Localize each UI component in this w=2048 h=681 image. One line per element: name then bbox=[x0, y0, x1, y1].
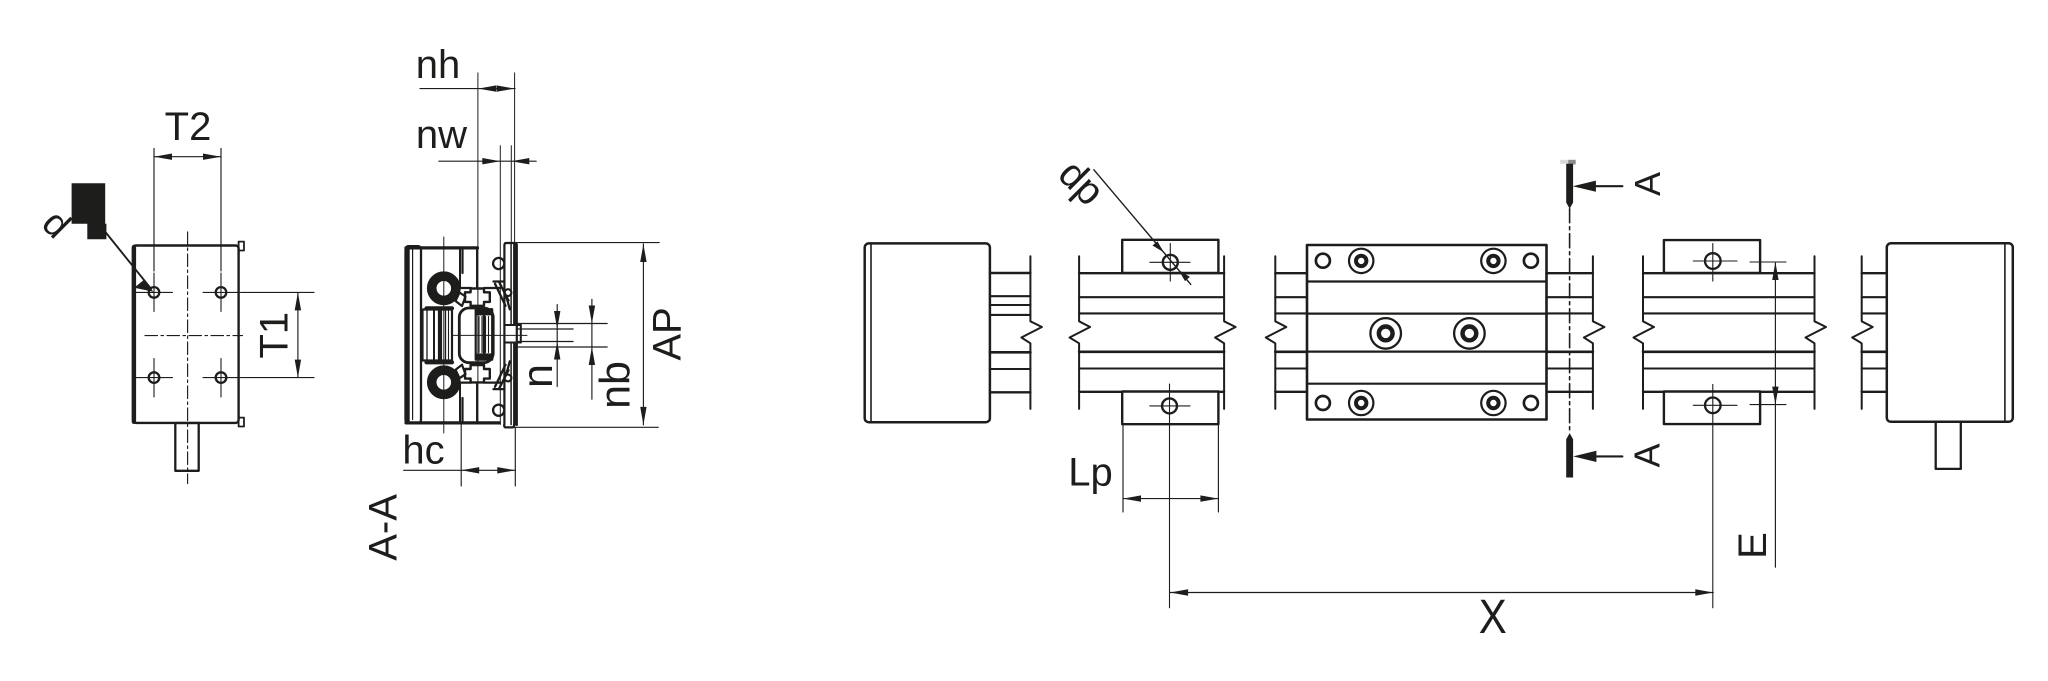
lip top bbox=[494, 282, 512, 310]
svg-text:hc: hc bbox=[402, 428, 444, 472]
carriage corner hole TL bbox=[1316, 254, 1330, 268]
rail span 2 bbox=[1079, 273, 1224, 392]
end block body bbox=[133, 246, 239, 423]
leader d bbox=[105, 232, 151, 289]
T-slot top bbox=[465, 289, 490, 306]
hole bottom-left bbox=[149, 372, 160, 383]
svg-text:AP: AP bbox=[646, 307, 690, 360]
svg-text:X: X bbox=[1479, 591, 1507, 644]
carriage bolt top L bbox=[1349, 249, 1373, 273]
belt end caps bbox=[476, 310, 492, 316]
carriage body top edge bbox=[406, 246, 478, 249]
dimension T2 bbox=[154, 149, 221, 272]
left clamp block bbox=[423, 310, 440, 361]
rail stub left of carriage bbox=[1275, 273, 1307, 392]
dimension T1 bbox=[241, 292, 315, 377]
dimension X bbox=[1170, 592, 1713, 594]
carriage corner hole BR bbox=[1524, 396, 1538, 410]
carriage bolt bottom L bbox=[1349, 391, 1373, 415]
bracket bottom plate bbox=[1122, 392, 1218, 425]
rail plate screw top bbox=[493, 258, 504, 269]
diamond top bbox=[456, 293, 466, 307]
belt exit tab bbox=[505, 325, 521, 343]
break line 1 bbox=[1021, 256, 1042, 409]
hole top-right bbox=[216, 287, 227, 298]
dimension AP bbox=[505, 243, 659, 428]
section thin verticals bbox=[444, 73, 527, 433]
break line 2 bbox=[1070, 256, 1091, 409]
svg-text:nb: nb bbox=[592, 361, 640, 409]
break line 6 bbox=[1634, 256, 1655, 409]
dimension Lp bbox=[1123, 426, 1218, 513]
right shaft stub bbox=[1936, 422, 1961, 469]
svg-text:T2: T2 bbox=[165, 105, 212, 149]
cut arrow bottom bbox=[1595, 455, 1622, 457]
section cut line A-A bbox=[1560, 160, 1576, 478]
motor block left bbox=[865, 243, 990, 422]
svg-text:T1: T1 bbox=[253, 312, 297, 359]
hole bottom-right bbox=[216, 372, 227, 383]
black blob artifact bbox=[72, 183, 107, 239]
bottom-right tab bbox=[239, 418, 244, 427]
rail stub right of carriage bbox=[1547, 273, 1593, 392]
clamp bar under top roller bbox=[427, 306, 453, 310]
dimension nb bbox=[591, 299, 593, 399]
central cavity bbox=[459, 308, 493, 363]
slot opening verticals bbox=[459, 248, 461, 288]
belt strip left bbox=[476, 309, 484, 359]
break line 3 bbox=[1215, 256, 1236, 409]
carriage corner hole TR bbox=[1524, 254, 1538, 268]
svg-text:n: n bbox=[514, 364, 562, 388]
svg-text:A: A bbox=[1627, 443, 1668, 467]
hole crosshairs bbox=[136, 273, 240, 397]
body right edges bbox=[461, 248, 463, 273]
bracket2 bottom plate bbox=[1664, 392, 1760, 425]
T-slot bottom bbox=[465, 365, 490, 382]
carriage bbox=[1307, 245, 1547, 420]
belt strip right bbox=[484, 309, 492, 359]
break line 7 bbox=[1806, 256, 1827, 409]
svg-text:A: A bbox=[1627, 172, 1668, 196]
n/nb extension lines bbox=[517, 324, 608, 348]
diamond bottom bbox=[456, 365, 466, 379]
svg-text:E: E bbox=[1731, 532, 1775, 559]
top ledge lines bbox=[452, 287, 471, 289]
dimension hc bbox=[404, 424, 516, 487]
bracket top plate bbox=[1122, 240, 1218, 273]
dimension nh bbox=[420, 88, 515, 90]
shaft stub bbox=[175, 423, 198, 471]
rail stub 4 bbox=[1862, 273, 1887, 392]
rail stub 1 bbox=[990, 273, 1031, 392]
top-right tab bbox=[239, 242, 244, 251]
carriage bolt top R bbox=[1481, 249, 1505, 273]
lip bottom bbox=[494, 361, 512, 389]
dimension E bbox=[1774, 263, 1776, 567]
roller top bbox=[431, 276, 456, 301]
roller bottom bbox=[431, 370, 456, 395]
bracket top hole bbox=[1163, 255, 1178, 270]
svg-text:nh: nh bbox=[416, 43, 461, 87]
svg-text:nw: nw bbox=[416, 113, 467, 157]
motor block right bbox=[1887, 243, 2013, 421]
carriage body bottom edge bbox=[406, 421, 499, 424]
right clamp block bbox=[441, 310, 452, 361]
rail span 3 bbox=[1643, 273, 1815, 392]
carriage corner hole BL bbox=[1316, 396, 1330, 410]
bottom ledge lines bbox=[452, 382, 471, 384]
centerline horizontal bbox=[145, 335, 243, 337]
carriage mid bolt L bbox=[1370, 318, 1401, 349]
bracket2 top plate bbox=[1664, 240, 1760, 273]
hole top-left bbox=[149, 287, 160, 298]
carriage plate (left) bbox=[406, 246, 422, 423]
bracket2 bottom hole bbox=[1705, 398, 1721, 414]
cut arrow top bbox=[1595, 185, 1623, 187]
svg-text:Lp: Lp bbox=[1068, 451, 1113, 495]
dimension nw bbox=[439, 160, 536, 162]
rail plate bottom tab bbox=[504, 425, 514, 428]
bracket bottom hole bbox=[1162, 398, 1177, 413]
centerline vertical bbox=[187, 232, 189, 484]
break line 4 bbox=[1266, 256, 1287, 409]
carriage mid bolt R bbox=[1454, 318, 1485, 349]
rail plate bbox=[504, 243, 516, 425]
carriage bolt bottom R bbox=[1481, 391, 1505, 415]
bracket2 top hole bbox=[1705, 253, 1721, 269]
dp leader bbox=[1094, 170, 1191, 285]
svg-text:A-A: A-A bbox=[362, 494, 406, 561]
break line 5 bbox=[1584, 256, 1605, 409]
dimension n bbox=[556, 305, 558, 387]
break line 8 bbox=[1852, 256, 1873, 409]
rail plate screw bottom bbox=[493, 405, 504, 416]
svg-text:dp: dp bbox=[1050, 152, 1113, 215]
clamp bar above bottom roller bbox=[427, 360, 453, 364]
